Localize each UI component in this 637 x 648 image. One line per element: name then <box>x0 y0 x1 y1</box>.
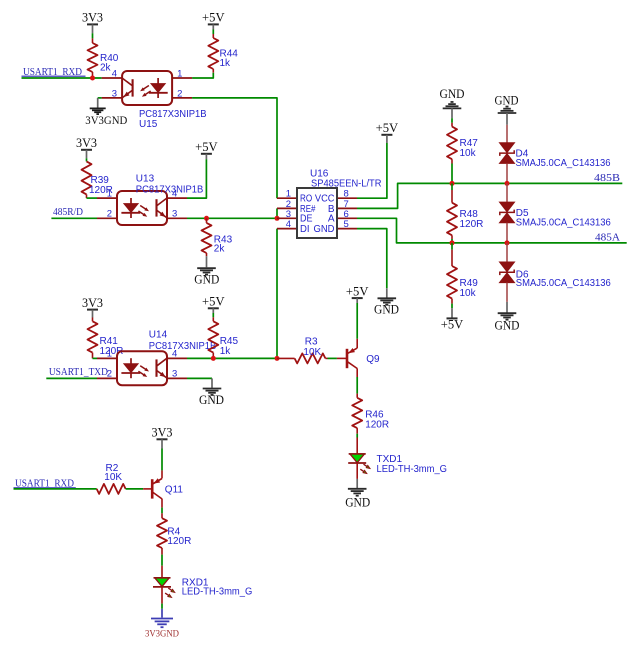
wire +5V to U13 pin 4 <box>187 159 206 198</box>
svg-text:GND: GND <box>199 393 224 407</box>
ground GND (U14 pin 3) <box>203 388 222 390</box>
svg-text:10k: 10k <box>460 288 477 299</box>
resistor R3 10K <box>277 357 295 359</box>
power flag 3V3 (Q11 emitter) <box>157 438 168 440</box>
ground 3V3GND (black, under U15 pin 3) <box>90 107 106 109</box>
junction RE#/DE <box>275 216 280 221</box>
svg-text:2k: 2k <box>100 63 112 74</box>
junction USART1_RXD/R40 <box>90 76 95 81</box>
svg-text:3V3GND: 3V3GND <box>85 113 127 127</box>
resistor R45 1k <box>208 321 218 352</box>
resistor R4 120R <box>157 518 167 548</box>
power flag +5V (below R49, inverted) <box>451 308 453 318</box>
junction R43 on DE wire <box>204 216 209 221</box>
svg-text:485R/D: 485R/D <box>53 207 83 218</box>
svg-text:1: 1 <box>107 189 112 200</box>
svg-text:3V3: 3V3 <box>152 426 173 440</box>
power flag +5V (feeds R45) <box>208 307 219 309</box>
svg-text:3: 3 <box>112 88 117 99</box>
svg-text:GND: GND <box>495 319 520 333</box>
svg-text:DI: DI <box>300 224 310 235</box>
ground GND (below D6) <box>506 302 508 313</box>
resistor R46 120R <box>352 398 362 428</box>
svg-text:+5V: +5V <box>376 121 399 135</box>
wire Q11 collector to R4 <box>161 499 163 508</box>
svg-text:PC817X3NIP1B: PC817X3NIP1B <box>136 185 204 196</box>
svg-text:3: 3 <box>172 369 177 380</box>
wire U16 GND pin 5 to GND <box>357 229 387 289</box>
svg-text:2k: 2k <box>214 243 226 254</box>
resistor R44 1k <box>208 38 218 69</box>
IC U16 SP485EEN-L/TR body <box>297 188 337 238</box>
ground 3V3GND (blue, below RXD1) <box>151 618 173 620</box>
svg-text:GND: GND <box>374 303 399 317</box>
wire U14 pin 4 row to DI junction <box>187 357 277 359</box>
svg-text:1: 1 <box>177 68 182 79</box>
wire U16 DI down to R3/R45 node <box>276 229 278 359</box>
svg-text:3: 3 <box>172 209 177 220</box>
svg-text:3V3GND: 3V3GND <box>145 629 179 639</box>
wire USART1_TXD to U14 pin 2 <box>46 377 97 379</box>
transistor Q11 (PNP) <box>151 479 154 498</box>
junction R45 on pin4 row <box>211 356 216 361</box>
wire U16 RE# to DE <box>276 208 278 218</box>
svg-text:10K: 10K <box>104 472 122 483</box>
wire R2 to Q11 base <box>126 488 144 490</box>
resistor R2 10K <box>97 484 126 494</box>
wire USART1_RXD to R40 junction and U15 pin 4 <box>22 77 102 79</box>
junction R48/R49 on 485A <box>450 240 455 245</box>
svg-text:3V3: 3V3 <box>82 296 103 310</box>
svg-text:2: 2 <box>107 369 112 380</box>
IC U16 pin stubs <box>277 197 297 199</box>
svg-text:SMAJ5.0CA_C143136: SMAJ5.0CA_C143136 <box>516 217 611 228</box>
LED RXD1 LED-TH-3mm_G <box>155 578 170 587</box>
TVS diode D6 SMAJ5.0CA_C143136 <box>506 243 508 262</box>
svg-text:GND: GND <box>440 87 465 101</box>
junction D4/D5 on 485B <box>505 181 510 186</box>
wire TXD1 cathode to GND <box>356 463 358 479</box>
svg-text:10K: 10K <box>303 347 321 358</box>
power flag +5V (feeds U13 pin 4) <box>201 153 212 155</box>
svg-text:3V3: 3V3 <box>82 11 103 25</box>
svg-text:LED-TH-3mm_G: LED-TH-3mm_G <box>377 464 448 475</box>
wire USART1_RXD to R2 <box>14 488 97 490</box>
transistor Q9 (PNP) <box>346 349 349 368</box>
svg-text:1: 1 <box>107 349 112 360</box>
svg-text:1k: 1k <box>220 58 232 69</box>
wire R41 to U14 pin 1 <box>93 357 98 359</box>
optocoupler U14 PC817X3NIP1B <box>117 351 167 385</box>
optocoupler U13 PC817X3NIP1B <box>117 191 167 225</box>
ground GND (below TXD1) <box>348 488 367 490</box>
svg-text:2: 2 <box>177 88 182 99</box>
wire U14 pin 3 to GND <box>187 377 212 379</box>
svg-text:120R: 120R <box>365 420 389 431</box>
resistor R41 120R <box>88 321 98 352</box>
svg-text:SMAJ5.0CA_C143136: SMAJ5.0CA_C143136 <box>516 278 611 289</box>
junction D5/D6 on 485A <box>505 240 510 245</box>
junction DI on pin4 row <box>275 356 280 361</box>
svg-text:5: 5 <box>344 219 349 230</box>
svg-text:SMAJ5.0CA_C143136: SMAJ5.0CA_C143136 <box>516 158 611 169</box>
svg-text:Q9: Q9 <box>366 354 380 365</box>
optocoupler U13 pin stubs <box>97 197 117 199</box>
op-to U15 pin stubs <box>102 77 123 79</box>
wire RXD1 cathode to 3V3GND <box>161 587 163 604</box>
power flag +5V (Q9 emitter) <box>352 297 363 299</box>
svg-text:GND: GND <box>495 93 519 107</box>
resistor R40 2k <box>88 43 98 72</box>
svg-text:GND: GND <box>314 224 335 235</box>
svg-text:U13: U13 <box>136 174 155 185</box>
svg-text:4: 4 <box>112 68 117 79</box>
svg-text:+5V: +5V <box>441 318 464 332</box>
resistor R39 120R <box>82 161 92 194</box>
wire R44 to U15 pin 1 <box>192 73 213 78</box>
wire R39 to U13 pin 1 <box>87 197 98 199</box>
svg-text:1k: 1k <box>220 346 232 357</box>
junction R47/R48 on 485B <box>450 181 455 186</box>
power flag +5V (top, feeds R44) <box>208 23 219 25</box>
svg-text:Q11: Q11 <box>165 485 184 496</box>
optocoupler U15 PC817X3NIP1B (mirrored: transistor left, LED right) <box>122 71 172 105</box>
wire U16 VCC to +5V <box>357 143 387 198</box>
svg-text:120R: 120R <box>460 219 484 230</box>
LED TXD1 LED-TH-3mm_G <box>350 454 365 463</box>
svg-text:+5V: +5V <box>195 140 218 154</box>
power flag 3V3 (feeds R41) <box>87 309 98 311</box>
wire U15 pin 3 to 3V3GND <box>98 97 102 99</box>
power flag +5V (U16 VCC) <box>381 134 392 136</box>
svg-text:+5V: +5V <box>346 284 369 298</box>
resistor R49 10k <box>451 243 453 250</box>
resistor R47 10k <box>447 127 457 160</box>
resistor R48 120R <box>451 183 453 190</box>
svg-text:10k: 10k <box>460 148 477 159</box>
wire U15 pin 2 to U16 RO <box>192 98 277 198</box>
svg-text:+5V: +5V <box>202 11 225 25</box>
wire Q9 collector to R46 <box>356 368 358 377</box>
ground GND under R43 <box>206 256 208 267</box>
TVS diode D5 SMAJ5.0CA_C143136 <box>506 183 508 202</box>
wire D4 to 485B <box>506 163 508 183</box>
power flag 3V3 (feeds R39) <box>81 149 92 151</box>
svg-text:U15: U15 <box>139 119 158 130</box>
svg-text:GND: GND <box>194 273 219 287</box>
wire U16 A to 485A line <box>357 218 627 243</box>
resistor R43 2k <box>206 218 208 223</box>
svg-text:4: 4 <box>286 219 291 230</box>
svg-text:GND: GND <box>345 496 370 510</box>
svg-text:+5V: +5V <box>202 295 225 309</box>
optocoupler U14 pin stubs <box>97 357 117 359</box>
svg-text:2: 2 <box>107 209 112 220</box>
wire U16 B to 485B line <box>357 183 622 208</box>
svg-text:USART1_TXD: USART1_TXD <box>49 367 108 378</box>
wire 485R/D to U13 pin 2 <box>51 217 97 219</box>
power flag 3V3 (top, feeds R40) <box>87 23 98 25</box>
svg-text:120R: 120R <box>167 536 191 547</box>
svg-text:485B: 485B <box>594 173 620 184</box>
svg-text:485A: 485A <box>595 233 621 244</box>
ground GND (U16 pin 5) <box>378 297 397 299</box>
svg-text:PC817X3NIP1B: PC817X3NIP1B <box>149 341 217 352</box>
svg-text:3V3: 3V3 <box>76 136 97 150</box>
TVS diode D4 SMAJ5.0CA_C143136 <box>500 143 515 153</box>
svg-text:LED-TH-3mm_G: LED-TH-3mm_G <box>182 587 253 598</box>
wire U13 pin 3 to U16 DE <box>187 217 277 219</box>
svg-text:U14: U14 <box>149 330 168 341</box>
